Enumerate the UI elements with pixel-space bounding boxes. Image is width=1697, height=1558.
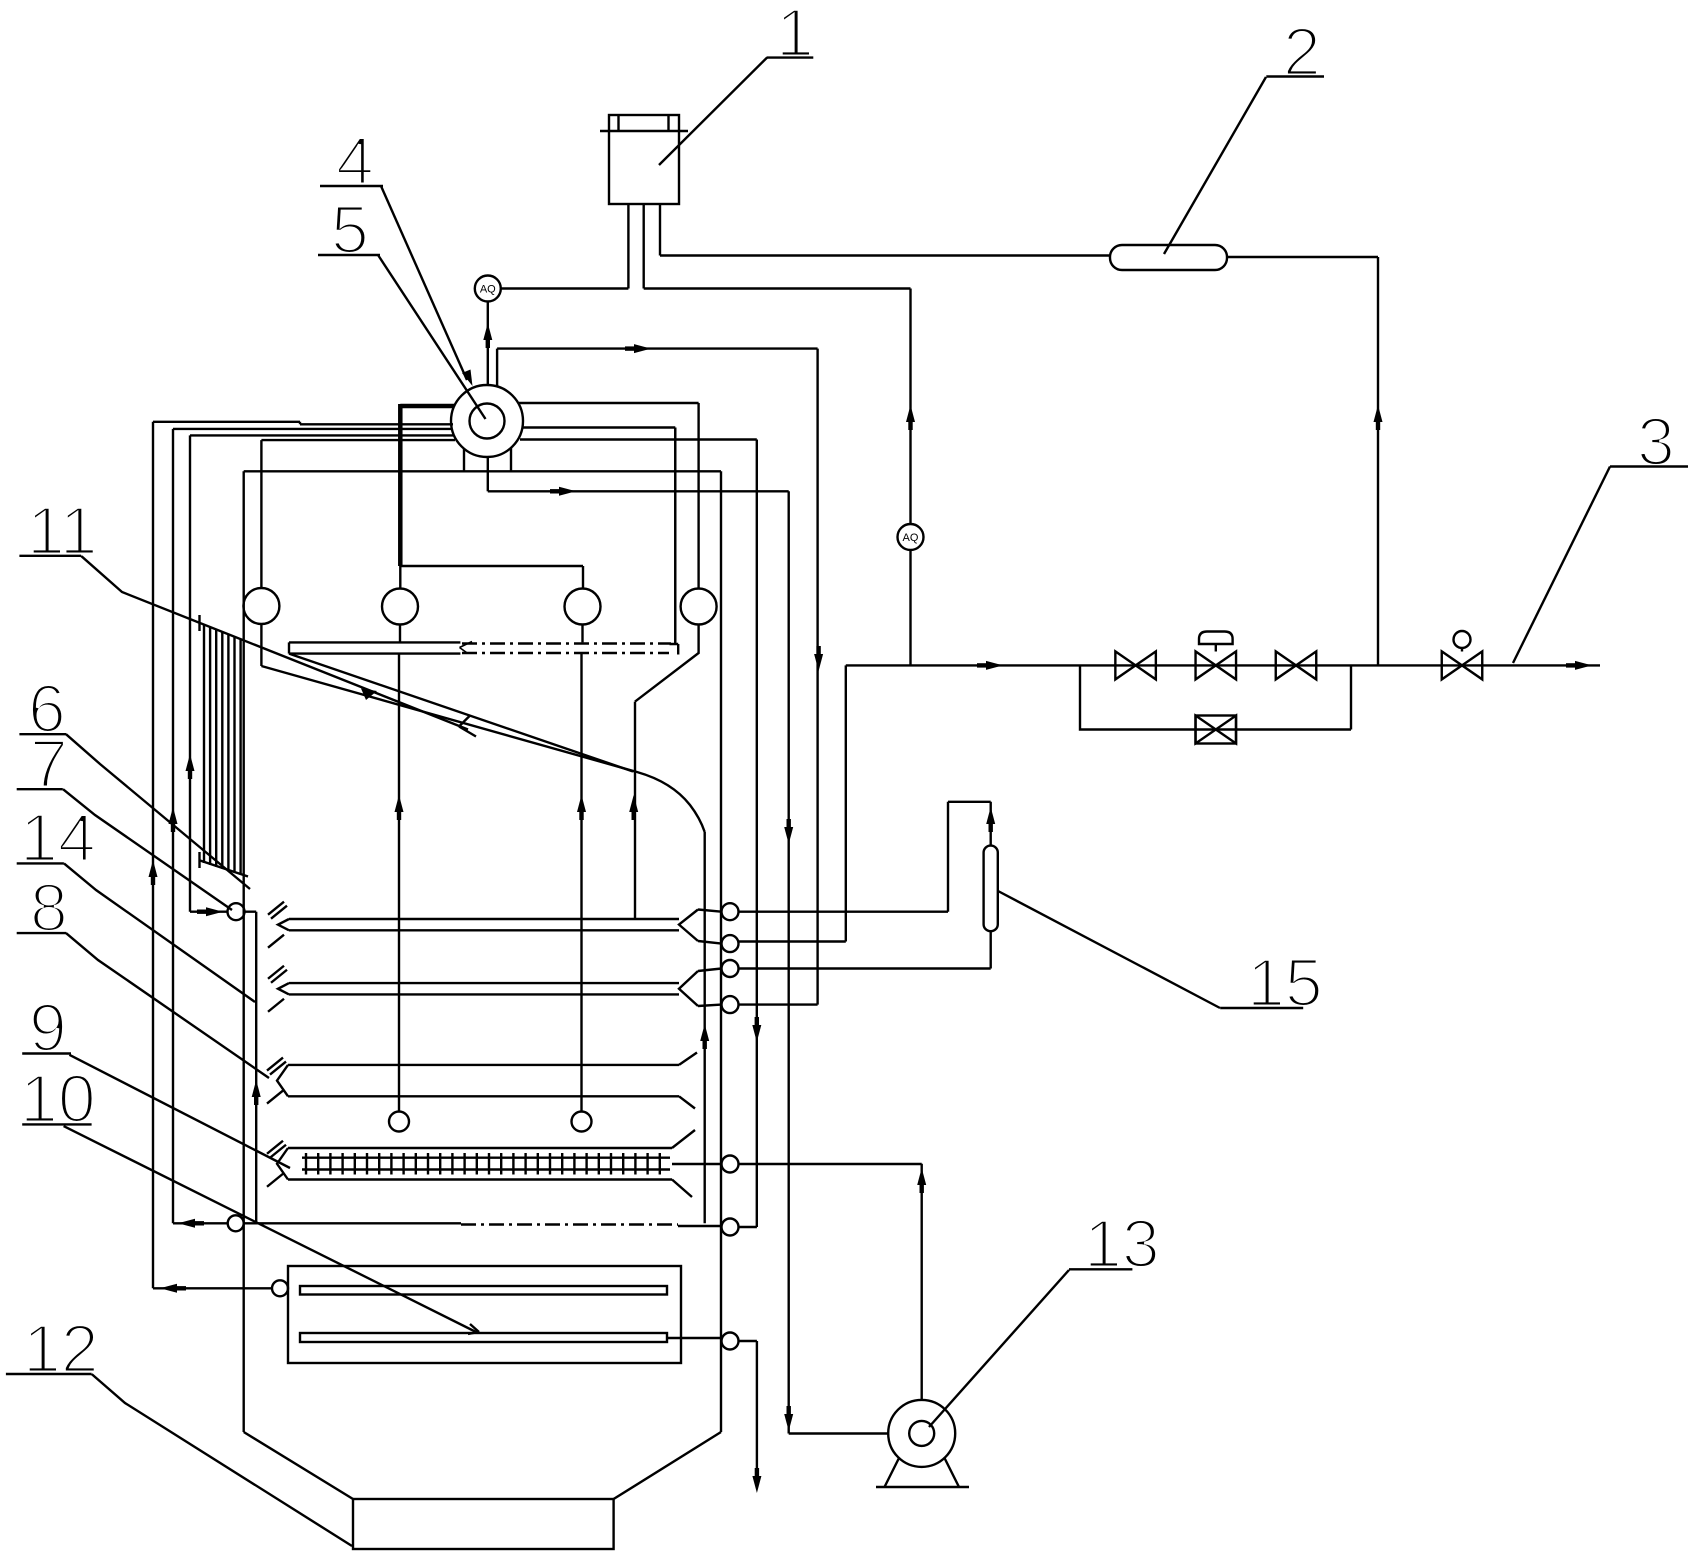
svg-text:2: 2 — [1283, 14, 1321, 90]
svg-text:15: 15 — [1247, 945, 1323, 1021]
svg-text:8: 8 — [30, 870, 68, 946]
svg-text:4: 4 — [336, 123, 374, 199]
svg-text:13: 13 — [1084, 1206, 1160, 1282]
svg-text:AQ: AQ — [903, 532, 919, 544]
svg-text:12: 12 — [23, 1311, 99, 1387]
svg-text:AQ: AQ — [480, 284, 496, 296]
svg-text:11: 11 — [27, 493, 98, 569]
svg-text:5: 5 — [331, 192, 369, 268]
svg-text:7: 7 — [30, 726, 68, 802]
svg-text:1: 1 — [776, 0, 814, 71]
svg-text:3: 3 — [1637, 404, 1675, 480]
